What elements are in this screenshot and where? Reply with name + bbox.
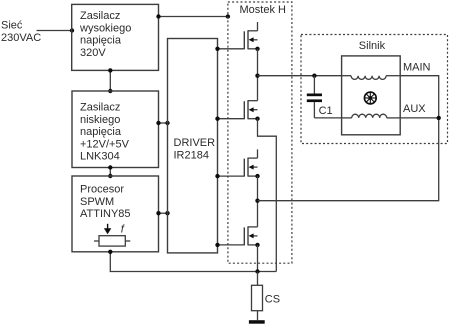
svg-text:ATTINY85: ATTINY85 bbox=[80, 208, 131, 220]
wire gate drive 3 bbox=[215, 174, 244, 178]
svg-text:SPWM: SPWM bbox=[80, 196, 114, 208]
svg-text:DRIVER: DRIVER bbox=[174, 137, 216, 149]
node C1 top junction bbox=[312, 74, 316, 78]
wire bottom rail to CS bbox=[257, 272, 259, 286]
svg-text:Procesor: Procesor bbox=[80, 184, 124, 196]
block Silnik dashed border bbox=[301, 35, 448, 144]
block Zasilacz niskiego napiecia +12V/+5V LNK304 bbox=[72, 91, 159, 168]
node bottom rail junction bbox=[255, 269, 259, 273]
label AUX bbox=[403, 103, 426, 115]
svg-text:napięcia: napięcia bbox=[80, 35, 122, 47]
wire bridge output A to motor bbox=[258, 75, 342, 77]
wire CS to ground bbox=[257, 311, 259, 321]
svg-text:+12V/+5V: +12V/+5V bbox=[80, 138, 130, 150]
wire gate drive 2 bbox=[215, 117, 244, 121]
svg-text:IR2184: IR2184 bbox=[174, 149, 209, 161]
node bridge output B bbox=[255, 199, 259, 203]
wire PSU1 to PSU2 bbox=[108, 68, 112, 93]
wire mains to PSU1 bbox=[37, 28, 75, 32]
transistor M3 high-side B bbox=[244, 149, 259, 178]
wire M3 source to M4 drain bbox=[257, 176, 259, 227]
transistor M2 low-side A bbox=[244, 100, 259, 121]
block Mostek H dashed border bbox=[228, 2, 292, 263]
label MAIN bbox=[403, 62, 431, 74]
wire CPU to DRIVER bbox=[156, 211, 169, 215]
svg-text:CS: CS bbox=[265, 293, 280, 305]
wire MAIN to common node bbox=[400, 76, 439, 118]
node bridge output A bbox=[255, 74, 259, 78]
svg-text:320V: 320V bbox=[80, 47, 106, 59]
svg-text:MAIN: MAIN bbox=[403, 62, 431, 74]
svg-text:napięcia: napięcia bbox=[80, 126, 122, 138]
block Procesor SPWM ATTINY85 bbox=[72, 176, 159, 252]
fan rotor symbol bbox=[364, 92, 376, 104]
svg-text:Zasilacz: Zasilacz bbox=[80, 102, 120, 114]
wire bridge output B to motor common bbox=[258, 118, 439, 201]
capacitor C1 bbox=[307, 76, 333, 118]
wire gate drive 4 bbox=[215, 243, 244, 247]
svg-text:C1: C1 bbox=[319, 105, 333, 117]
wire M2 source to bottom rail bbox=[258, 119, 277, 272]
inductor MAIN winding bbox=[342, 76, 401, 80]
svg-text:wysokiego: wysokiego bbox=[79, 22, 131, 34]
wire PSU2 to CPU bbox=[108, 165, 112, 178]
svg-text:Silnik: Silnik bbox=[359, 40, 386, 52]
block Zasilacz wysokiego napiecia 320V bbox=[72, 4, 159, 70]
wire CPU ground to bottom rail bbox=[108, 250, 276, 272]
wire AUX to common node bbox=[400, 117, 439, 119]
wire M1 source to M2 drain bbox=[257, 49, 259, 101]
svg-text:230VAC: 230VAC bbox=[1, 32, 41, 44]
wire 320V rail to Mostek H border bbox=[156, 14, 230, 18]
svg-text:Mostek H: Mostek H bbox=[240, 4, 287, 16]
crystal resonator f inside CPU bbox=[94, 224, 130, 246]
wire M4 source to bottom rail bbox=[257, 245, 259, 272]
node Siec 230VAC label bbox=[1, 20, 41, 45]
node motor common junction bbox=[437, 116, 441, 120]
resistor CS bbox=[252, 285, 281, 310]
svg-text:LNK304: LNK304 bbox=[80, 151, 120, 163]
svg-text:AUX: AUX bbox=[403, 103, 426, 115]
transistor M1 high-side A bbox=[244, 22, 259, 51]
wire gate drive 1 bbox=[215, 47, 244, 51]
wire C1 to AUX winding bbox=[314, 117, 341, 119]
wire PSU2 to DRIVER bbox=[156, 121, 169, 125]
inductor AUX winding bbox=[342, 114, 401, 118]
svg-text:niskiego: niskiego bbox=[80, 114, 120, 126]
transistor M4 low-side B bbox=[244, 226, 259, 247]
svg-text:Sieć: Sieć bbox=[1, 20, 23, 32]
block DRIVER IR2184 bbox=[168, 39, 218, 253]
svg-text:Zasilacz: Zasilacz bbox=[80, 10, 120, 22]
block motor inner box bbox=[342, 56, 401, 135]
ground bbox=[249, 320, 265, 324]
